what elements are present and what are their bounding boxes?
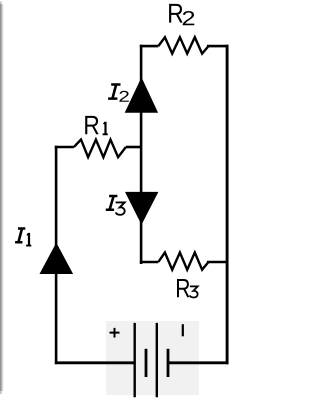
label R1	[85, 116, 108, 135]
battery V1	[135, 323, 168, 397]
wire R3 branch right lead	[207, 261, 229, 264]
label R2	[169, 4, 194, 25]
battery + terminal label	[110, 328, 120, 338]
resistor R1	[74, 140, 126, 158]
resistor R3	[158, 253, 208, 270]
current arrow I3	[125, 192, 158, 225]
current arrow I1	[40, 243, 74, 274]
wire top branch right lead	[207, 45, 229, 48]
label R3	[177, 279, 198, 298]
current arrow I2	[125, 77, 158, 112]
resistor R2	[158, 37, 208, 53]
wire left vertical	[55, 146, 58, 364]
label I3	[106, 195, 125, 215]
wire R3 branch left lead	[140, 261, 159, 264]
wire top branch left lead	[140, 45, 159, 48]
label I2	[108, 83, 129, 102]
wire bottom left	[55, 361, 135, 364]
label I1	[15, 227, 31, 246]
wire right vertical	[226, 45, 229, 364]
page edge	[0, 2, 3, 395]
wire middle vertical	[140, 45, 143, 264]
wire R1 branch right lead	[126, 146, 141, 149]
wire R1 branch left lead	[55, 146, 74, 149]
battery - terminal label	[182, 324, 184, 336]
battery highlight box	[106, 321, 199, 395]
wire bottom right	[168, 361, 229, 364]
